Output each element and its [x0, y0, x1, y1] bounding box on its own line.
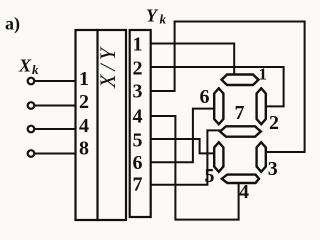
svg-text:k: k: [32, 62, 39, 77]
svg-text:k: k: [160, 12, 167, 27]
svg-text:7: 7: [235, 102, 245, 124]
svg-text:4: 4: [133, 106, 143, 128]
svg-text:3: 3: [268, 158, 278, 180]
svg-text:5: 5: [133, 130, 143, 152]
svg-text:2: 2: [79, 91, 89, 113]
svg-text:5: 5: [205, 165, 215, 187]
svg-text:1: 1: [133, 34, 143, 56]
svg-text:6: 6: [133, 152, 143, 174]
svg-text:4: 4: [239, 181, 249, 203]
svg-text:4: 4: [79, 115, 89, 137]
svg-text:1: 1: [79, 68, 89, 90]
svg-text:X/Y: X/Y: [95, 44, 120, 89]
svg-text:a): a): [5, 14, 20, 35]
svg-text:2: 2: [133, 58, 143, 80]
svg-text:6: 6: [200, 86, 210, 108]
svg-text:8: 8: [79, 138, 89, 160]
svg-text:X: X: [18, 56, 32, 76]
svg-text:3: 3: [133, 81, 143, 103]
svg-text:2: 2: [269, 112, 279, 134]
svg-text:1: 1: [259, 64, 268, 83]
svg-text:7: 7: [133, 174, 143, 196]
